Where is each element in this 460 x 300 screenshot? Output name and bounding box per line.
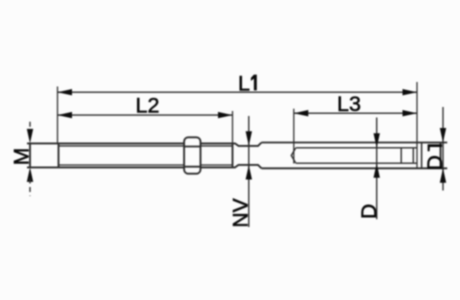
internal bore drill point xyxy=(291,148,296,163)
sleeve body top edge xyxy=(262,142,448,144)
dimension L2 xyxy=(58,94,233,119)
extension line rod end xyxy=(232,111,234,143)
end plug joint line xyxy=(421,143,423,169)
svg-text:L: L xyxy=(238,72,250,96)
svg-text:D: D xyxy=(358,204,381,219)
dimension L3 xyxy=(294,92,417,116)
hex nut xyxy=(184,137,200,173)
svg-text:L3: L3 xyxy=(337,92,361,116)
svg-text:D: D xyxy=(424,155,447,170)
thread start section line xyxy=(58,143,60,167)
extension line right xyxy=(416,82,418,168)
dimension L1 xyxy=(58,72,418,96)
rod outer top line xyxy=(27,142,233,144)
extension line left (thread start) xyxy=(57,87,59,144)
wrench flat neck top outline xyxy=(233,143,262,146)
rod outer bottom line xyxy=(27,166,233,168)
sleeve body bottom edge xyxy=(262,167,448,169)
wrench flat neck bottom outline xyxy=(233,165,262,168)
sleeve body right end xyxy=(440,143,442,169)
dimension D1 xyxy=(424,107,447,191)
rod end face xyxy=(232,143,234,167)
stud left end cap xyxy=(29,143,31,167)
bore thread end line xyxy=(400,148,402,163)
svg-text:NV: NV xyxy=(229,198,252,227)
dimension D xyxy=(358,118,381,220)
internal bore top line xyxy=(296,147,417,149)
svg-text:L2: L2 xyxy=(136,94,160,118)
dimension NV xyxy=(229,116,252,228)
dimension M xyxy=(11,122,34,196)
extension line bore start xyxy=(293,109,295,164)
bore bottom line a xyxy=(412,148,414,163)
thread minor diameter lines xyxy=(59,146,233,165)
svg-text:M: M xyxy=(11,148,34,166)
internal bore bottom line xyxy=(296,162,417,164)
